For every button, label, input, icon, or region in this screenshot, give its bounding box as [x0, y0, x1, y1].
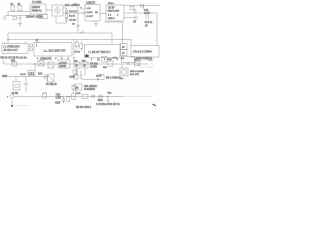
label C12	[144, 9, 150, 15]
svg-text:4148: 4148	[98, 100, 104, 102]
module PS4	[131, 46, 159, 59]
wire	[8, 11, 30, 13]
switch S1	[18, 3, 22, 12]
circle node CN	[7, 94, 14, 98]
capacitor C3	[72, 23, 80, 26]
wire	[124, 17, 136, 19]
relay K2	[48, 62, 54, 68]
node D	[97, 57, 107, 62]
wire	[11, 98, 13, 106]
varistor RV1	[135, 62, 140, 66]
power supply PS1	[2, 42, 28, 54]
wire	[84, 68, 86, 76]
capacitor C16	[130, 6, 134, 10]
meter M1	[120, 68, 128, 76]
regulator U2	[106, 5, 124, 21]
wire	[156, 13, 158, 46]
wire	[75, 90, 77, 95]
svg-text:2: 2	[81, 8, 82, 10]
shunt SH1	[74, 84, 82, 90]
svg-text:RB 30 0030 1: RB 30 0030 1	[76, 106, 92, 109]
transformer T2	[38, 61, 44, 67]
svg-text:L.L. SLA LIMIT CKT: L.L. SLA LIMIT CKT	[44, 49, 67, 52]
diode D4	[74, 70, 78, 79]
svg-text:CONN: CONN	[90, 67, 97, 69]
svg-text:R14: R14	[38, 74, 43, 76]
svg-text:REGULATR: REGULATR	[108, 10, 120, 13]
svg-text:T1 PWR: T1 PWR	[32, 1, 42, 4]
wire	[34, 64, 36, 70]
svg-text:C4 10u: C4 10u	[69, 20, 77, 22]
label 2.73	[113, 58, 118, 60]
resistor R1	[65, 14, 75, 18]
wire	[82, 79, 99, 81]
diode D6	[80, 70, 82, 79]
label R14	[38, 74, 43, 76]
svg-text:R7 R8: R7 R8	[75, 52, 80, 54]
node G	[107, 96, 108, 97]
resistor R25	[98, 75, 120, 80]
svg-text:GND 8: GND 8	[108, 18, 115, 20]
label RB 30	[76, 106, 92, 109]
label 7.5V	[56, 94, 62, 99]
label J5	[145, 26, 148, 28]
svg-text:-17+4-2 1 COMP+: -17+4-2 1 COMP+	[133, 50, 153, 53]
wire	[121, 64, 123, 68]
svg-text:1 40 0414 4041 140 41: 1 40 0414 4041 140 41	[96, 104, 120, 106]
svg-text:LM317K: LM317K	[86, 1, 95, 4]
resistor R8	[80, 41, 83, 51]
diode D9	[98, 95, 104, 103]
wire bus B	[8, 39, 131, 41]
label current	[84, 86, 98, 91]
fuse F4	[43, 93, 47, 98]
diode D10	[141, 4, 144, 9]
svg-text:C13 1u: C13 1u	[145, 21, 153, 24]
wire	[63, 12, 85, 14]
wire	[104, 22, 123, 44]
label F3	[96, 74, 102, 77]
connector J2	[30, 44, 33, 51]
label M1 pins	[120, 78, 125, 80]
svg-text:C8 15: C8 15	[20, 74, 26, 76]
node B	[7, 39, 8, 40]
wire	[12, 105, 30, 107]
arrow mark	[81, 31, 84, 33]
svg-text:LM340: LM340	[59, 66, 67, 68]
box comp window	[122, 57, 135, 63]
wire	[5, 15, 30, 17]
connector J4	[121, 50, 128, 56]
svg-text:3 OUT: 3 OUT	[87, 16, 94, 18]
label row RB	[1, 57, 27, 60]
mark bottom right	[153, 104, 157, 106]
svg-text:K1 RELAY: K1 RELAY	[46, 83, 57, 86]
capacitor C9	[24, 77, 27, 92]
box faint	[140, 60, 152, 67]
svg-text:LED1: LED1	[29, 73, 35, 75]
label AUX 4	[134, 59, 153, 62]
label above C15	[77, 93, 82, 95]
transformer T1	[30, 1, 46, 14]
label 115VAC	[26, 15, 42, 18]
svg-text:OH MOT 2: OH MOT 2	[40, 58, 52, 61]
label C2	[74, 4, 78, 7]
node E	[127, 63, 128, 64]
svg-text:7.5V: 7.5V	[56, 94, 61, 96]
svg-text:R12: R12	[11, 61, 16, 63]
diode D2a	[65, 18, 77, 24]
svg-text:TB1: TB1	[39, 17, 44, 19]
svg-text:AUX +28VDC: AUX +28VDC	[65, 4, 81, 7]
regulator U1	[85, 1, 100, 21]
relay K1	[46, 74, 57, 86]
regulator U3	[58, 60, 70, 68]
ground	[94, 21, 99, 26]
label R7 R8	[75, 52, 80, 54]
wire	[36, 40, 38, 44]
connector J3	[121, 44, 128, 50]
svg-text:1: 1	[36, 45, 37, 47]
svg-text:D1 5.1V: D1 5.1V	[69, 11, 77, 13]
node F	[11, 105, 13, 107]
label above U2	[108, 2, 114, 5]
resistor R7	[75, 40, 78, 50]
wire	[14, 95, 124, 97]
svg-text:4193: 4193	[55, 103, 61, 105]
svg-text:28 VDC OUT: 28 VDC OUT	[4, 49, 19, 52]
capacitor C13	[145, 15, 153, 24]
wire	[56, 16, 67, 23]
box U4b	[82, 60, 89, 68]
ground	[18, 24, 23, 27]
svg-text:GND: GND	[2, 75, 8, 78]
label row OH	[40, 58, 52, 61]
svg-text:(+)28: (+)28	[70, 77, 76, 79]
svg-text:4A21 COMP 21: 4A21 COMP 21	[136, 57, 153, 60]
wire	[73, 40, 75, 56]
wire	[127, 63, 129, 65]
wire	[5, 63, 148, 65]
svg-text:2 ADJ: 2 ADJ	[87, 11, 93, 14]
svg-text:CURRENT: CURRENT	[84, 89, 96, 91]
label GND	[2, 75, 8, 78]
wire	[100, 13, 106, 15]
svg-text:XFMR A1: XFMR A1	[32, 9, 43, 12]
capacitor C4	[134, 9, 137, 13]
capacitor C1	[13, 16, 16, 20]
box C14	[67, 97, 70, 101]
svg-text:5V2 A: 5V2 A	[108, 2, 114, 5]
node G2	[73, 96, 74, 97]
svg-text:0.1uF: 0.1uF	[144, 13, 150, 15]
terminal block TB1	[38, 15, 48, 19]
AC plug P1	[3, 16, 7, 20]
optocoupler D2	[13, 82, 20, 91]
svg-text:+5 VDC: +5 VDC	[59, 63, 67, 65]
label J4 pins	[121, 58, 126, 60]
svg-text:100 +28VDC: 100 +28VDC	[84, 86, 98, 88]
LED DS1	[28, 71, 35, 76]
svg-text:I L I2F R7 T5W 4T I: I L I2F R7 T5W 4T I	[89, 51, 111, 54]
zener D7	[55, 96, 65, 104]
wire	[111, 33, 113, 45]
svg-text:1 2: 1 2	[36, 40, 39, 42]
resistor R15	[103, 59, 113, 69]
diode D8	[92, 95, 95, 98]
ground	[106, 96, 110, 101]
wire	[76, 68, 78, 76]
wire	[124, 12, 157, 14]
label C8 15	[20, 74, 26, 76]
svg-text:1A F3: 1A F3	[96, 74, 102, 77]
wire faint	[124, 95, 152, 97]
capacitor C2a	[19, 16, 22, 24]
wire	[63, 8, 67, 10]
label R31	[108, 93, 113, 95]
label AUX +28VDC	[65, 4, 81, 7]
resistor R30	[82, 95, 88, 99]
fuse F1	[11, 3, 15, 12]
plug P2	[3, 61, 5, 64]
label under D2	[12, 93, 19, 95]
module PS2	[34, 40, 77, 61]
svg-text:RB 30 OF 30 FA 4.0 2A: RB 30 OF 30 FA 4.0 2A	[1, 57, 27, 60]
svg-text:R1 1K: R1 1K	[69, 16, 76, 18]
resistor R20	[72, 85, 79, 93]
node C	[34, 63, 35, 64]
module PS3	[85, 45, 121, 62]
box U4a	[74, 60, 81, 68]
svg-text:RS-232: RS-232	[90, 64, 99, 66]
wire	[7, 12, 9, 16]
wire	[130, 40, 132, 47]
label 4A21 COMP	[136, 57, 153, 60]
label plus	[70, 77, 76, 79]
svg-text:1.5W: 1.5W	[56, 97, 62, 99]
svg-text:1 IN: 1 IN	[87, 8, 91, 10]
node G1	[62, 96, 63, 97]
svg-text:RED / ALARM: RED / ALARM	[130, 70, 144, 73]
svg-text:RL4 CKT: RL4 CKT	[130, 74, 140, 76]
diode D3	[45, 75, 49, 81]
resistor R12	[11, 61, 17, 66]
wire bus A	[8, 32, 112, 34]
node A	[84, 12, 85, 13]
label RS232	[90, 64, 99, 69]
svg-text:C12: C12	[144, 9, 149, 12]
wire	[77, 7, 79, 34]
wire	[7, 33, 9, 44]
label RED ALARM	[130, 70, 144, 76]
wire	[46, 9, 52, 11]
small box J7	[73, 70, 77, 74]
svg-text:5W 2 OHM R: 5W 2 OHM R	[106, 78, 120, 80]
box C15	[72, 93, 76, 99]
wire	[15, 77, 17, 82]
wire top rail	[124, 5, 160, 7]
svg-text:115/28V: 115/28V	[32, 6, 41, 9]
svg-text:U2 5V: U2 5V	[108, 7, 115, 9]
wire	[8, 76, 44, 78]
capacitor C5	[133, 16, 137, 24]
pin stubs U1	[81, 8, 86, 13]
label row bottom	[96, 104, 120, 106]
bridge rectifier BR1	[52, 5, 63, 16]
zener D1	[65, 10, 77, 14]
